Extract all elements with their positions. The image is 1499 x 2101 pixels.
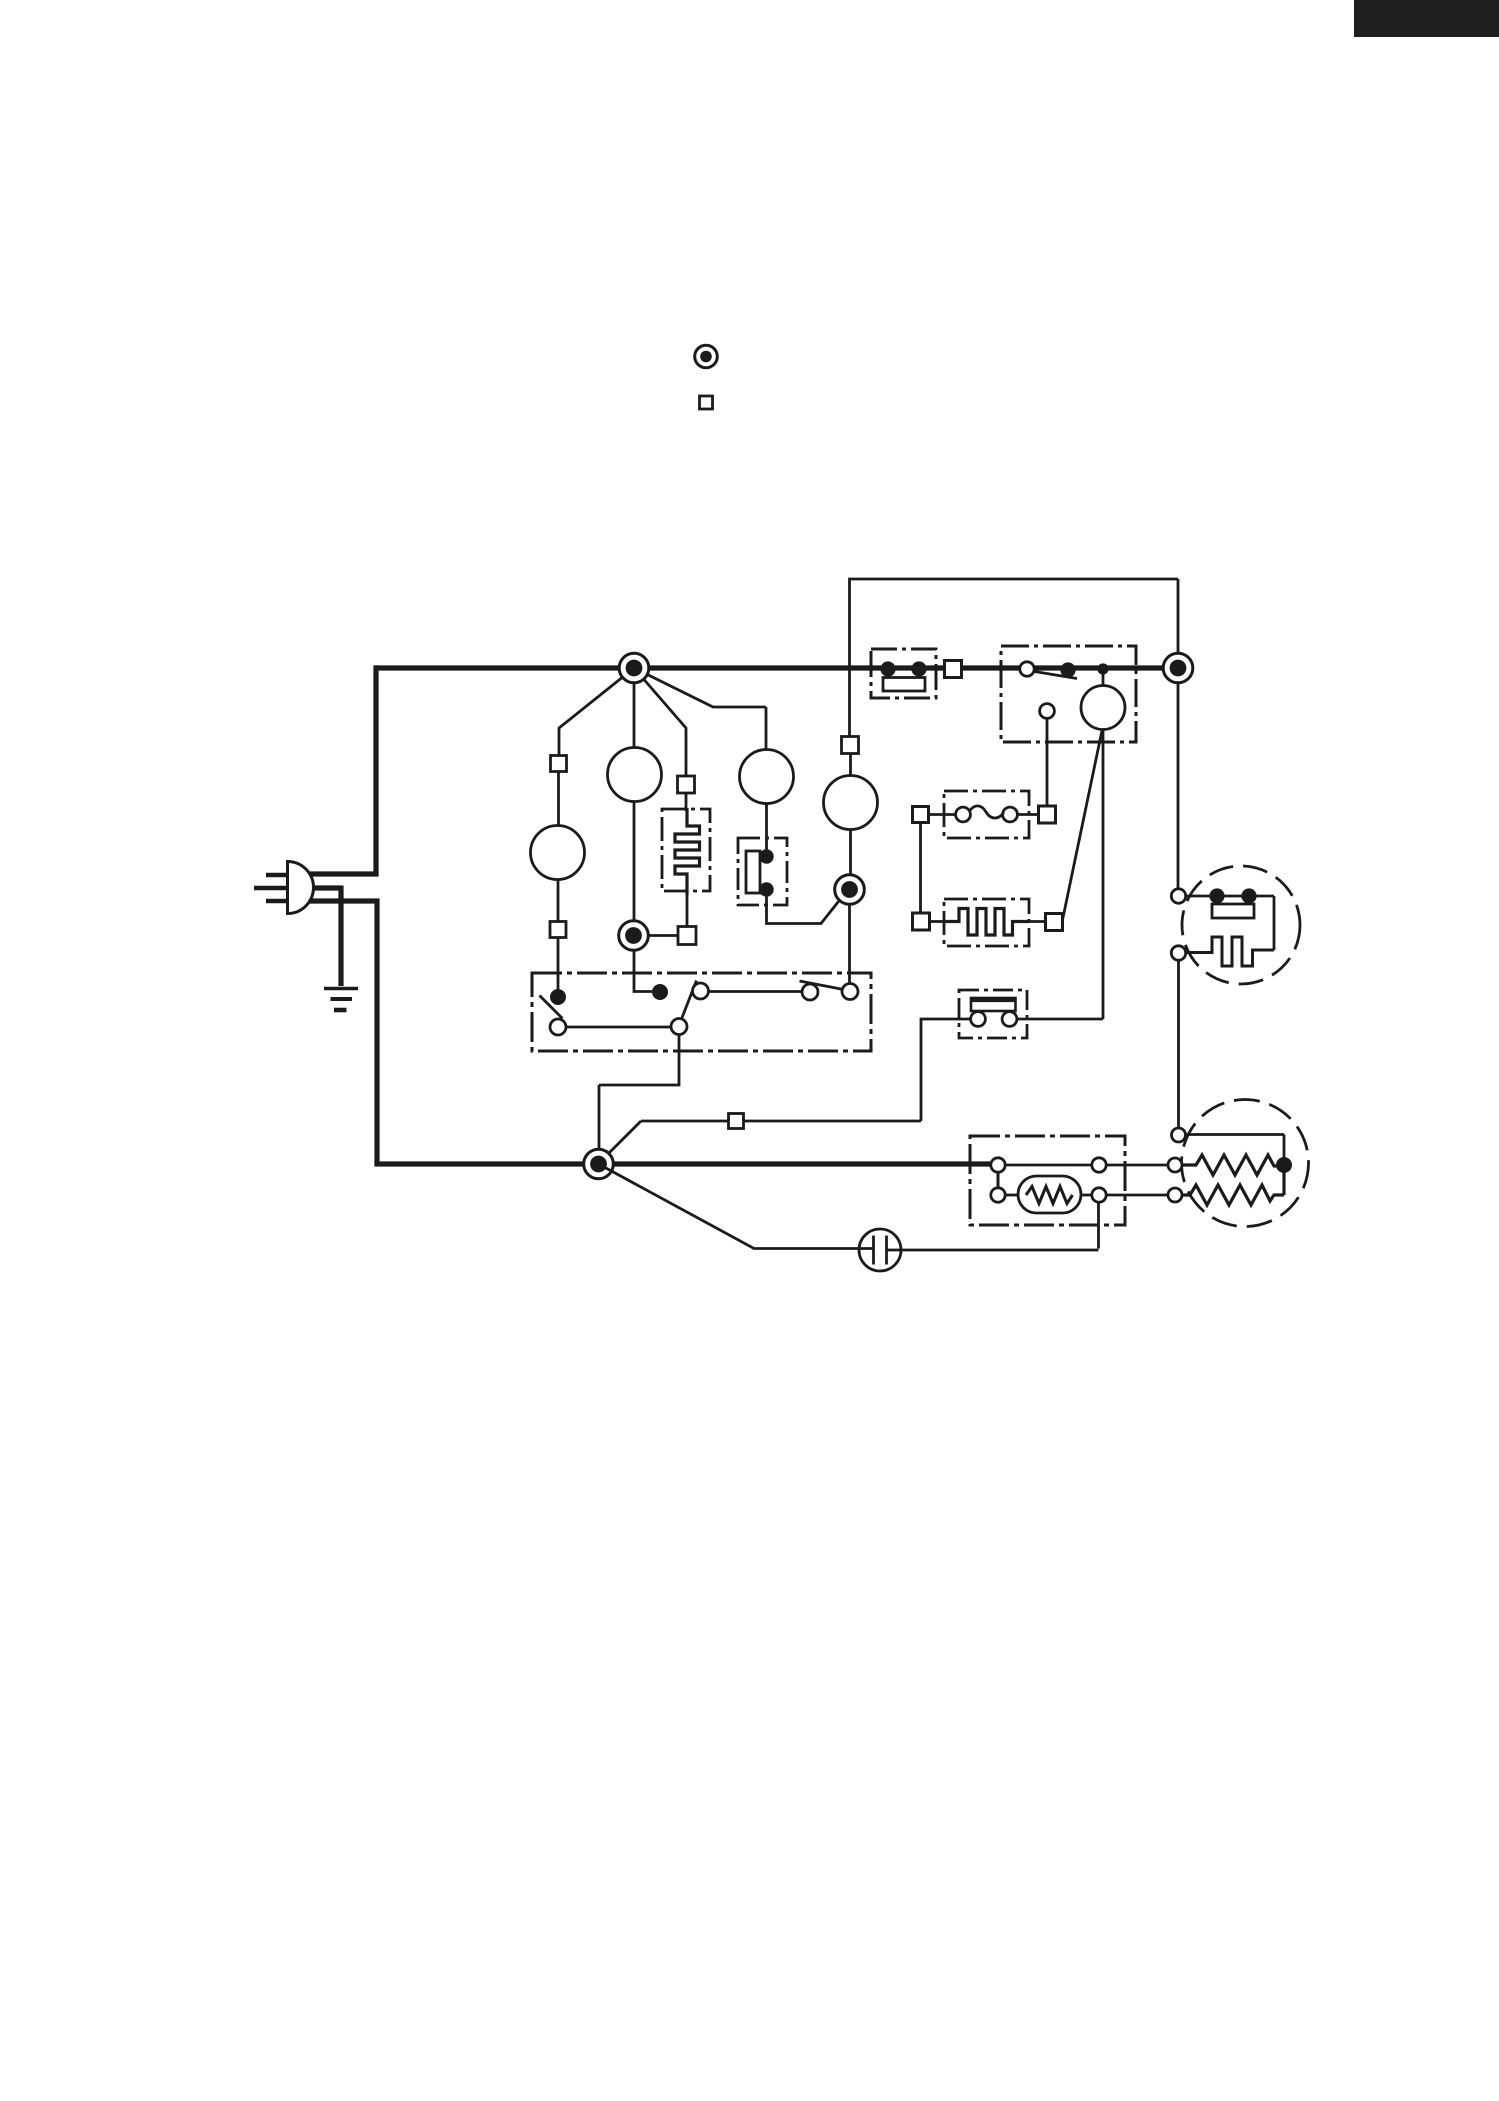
wire S10 to MB2 [930, 920, 945, 923]
magnetron terminal top [1171, 889, 1185, 903]
wire S8 to S10 [919, 823, 922, 914]
wire plug neutral lead (thick) [309, 898, 377, 1164]
relay terminal RB-d [1040, 704, 1055, 719]
magnetron anode vanes [1186, 937, 1274, 966]
heater box MB2 [944, 899, 1029, 946]
switch SW3 contact left [802, 984, 818, 1000]
wire S4 to MB1 [685, 793, 688, 811]
terminal square S3 [678, 927, 696, 945]
wire MB2 to S11 [1029, 920, 1046, 923]
wire C3 to F1 [765, 804, 768, 851]
magnetron terminal bottom [1171, 946, 1185, 960]
motor C2 [608, 748, 662, 802]
wire S5 to C4 [849, 754, 852, 776]
pin dot F1 bottom [759, 882, 773, 896]
fan wire T1 top run [1186, 1135, 1285, 1159]
wire N1 to C2 [633, 668, 636, 748]
wire magnetron to fan motor [1177, 960, 1180, 1128]
lamp C3 [740, 750, 794, 804]
terminal square S5 [842, 737, 859, 754]
fan junction dot [1276, 1157, 1292, 1173]
HR heater oval [1018, 1176, 1081, 1213]
power plug P [288, 862, 314, 914]
relay pin dot RB-b [1060, 662, 1075, 677]
relay pin dot RB-c [1097, 663, 1108, 674]
fan terminal T3 [1168, 1188, 1182, 1202]
switch SW1 blade [540, 996, 563, 1019]
fuse element F1 [746, 851, 760, 893]
magnetron filament dots [1209, 888, 1224, 903]
wire N5 to capacitor [599, 1164, 874, 1249]
wire S1 to C1 [557, 772, 560, 826]
HR heater zigzag [1026, 1187, 1073, 1204]
HR contact A [991, 1158, 1005, 1172]
terminal square S1 [551, 756, 567, 772]
wire S8 to TP [929, 813, 956, 816]
wire TS to coil BC vertical [1102, 729, 1105, 1019]
wire capacitor to HR [887, 1202, 1099, 1250]
thermistor element MB1 glyph [675, 808, 700, 895]
terminal square S11 [1046, 914, 1063, 931]
fan motor FM dashed envelope [1182, 1100, 1309, 1227]
wire C2 to N2 [633, 802, 636, 923]
capacitor plates [874, 1236, 887, 1265]
wire plug earth lead (thick) [309, 886, 341, 987]
wire bus to S5 branch [848, 668, 851, 737]
HR link A-B [997, 1172, 1000, 1188]
cutout contact TP left [956, 807, 971, 822]
wire N2 to SW2 NC jog [634, 949, 652, 992]
capacitor C [859, 1229, 901, 1271]
fan terminal T2 [1168, 1158, 1182, 1172]
wire MB1 to S3 [686, 895, 689, 927]
wire N1 to S1 branch [559, 668, 634, 756]
black corner tab [1354, 0, 1499, 37]
wire N3 to SW3 [848, 905, 851, 985]
thermostat bridge bar [971, 998, 1016, 1011]
node N3 [835, 875, 865, 905]
wire F1 to N3 [767, 890, 847, 924]
terminal square S8 [913, 807, 929, 823]
wire N5 diag to interlock run [598, 1121, 641, 1164]
wire SW1 to SW2 [566, 1026, 671, 1029]
node N5 [584, 1149, 614, 1179]
switch SW2 NO contact [693, 983, 709, 999]
switch SW2 common [671, 1019, 687, 1035]
wire S11 to coil BC [1063, 731, 1103, 921]
switch SW2 blade [682, 981, 697, 1020]
terminal square S9 [1039, 806, 1056, 823]
wire left riser (thick) [373, 665, 378, 874]
switch SW3 contact right [842, 984, 858, 1000]
heater switch box HR [970, 1136, 1125, 1225]
wire TP to S9 [1017, 813, 1038, 816]
terminal square S10 [913, 913, 930, 930]
wire RB-d to S9 [1046, 719, 1049, 807]
fuse holder box FB [871, 649, 936, 698]
fan winding R1 [1182, 1155, 1278, 1175]
wire C4 to N3 [849, 830, 852, 877]
thermal cutout box TP [944, 791, 1029, 838]
switch assembly box SW [532, 973, 871, 1051]
pin dot F1 top [759, 849, 773, 863]
fan terminal T1 [1172, 1128, 1186, 1142]
wire N1 to C3 branch [634, 668, 766, 750]
wire RB-c to coil [1102, 669, 1105, 686]
terminal square S7 [729, 1114, 744, 1129]
thermostat contact TS left [971, 1012, 986, 1027]
ground [324, 987, 358, 990]
fuse box F1 [738, 838, 787, 905]
legend terminal square [700, 396, 713, 409]
terminal square S2 [550, 922, 566, 938]
heater element MB2 glyph [944, 909, 1029, 936]
wire C1 to S2 [557, 880, 560, 922]
HR wire oval-D [1081, 1194, 1092, 1197]
cutout contact TP right [1003, 807, 1018, 822]
magnetron filament body [1212, 904, 1254, 918]
pin dot FB right [911, 661, 926, 676]
switch SW2 NC dot [652, 984, 668, 1000]
wire TS right to riser [1017, 1018, 1103, 1021]
wire top bus (thick) [376, 665, 1178, 670]
node N4 [1163, 653, 1193, 683]
legend connector symbol [695, 345, 718, 368]
HR contact C [1092, 1158, 1106, 1172]
node N2 [619, 921, 649, 951]
wire SW2 common down jog [599, 1035, 679, 1151]
oven thermostat box TS [959, 990, 1027, 1038]
magnetron MG dashed envelope [1182, 866, 1300, 984]
HR wire B-oval [1005, 1194, 1018, 1197]
relay coil BC [1081, 686, 1125, 730]
wire SW2 to SW3 [709, 990, 803, 993]
node N1 [619, 653, 649, 683]
fan winding R2 [1182, 1172, 1284, 1205]
terminal square S6 [945, 661, 962, 678]
switch SW1 contact [550, 1019, 566, 1035]
wire interlock run [641, 1120, 921, 1123]
switch SW3 blade [800, 981, 844, 990]
motor C4 [824, 776, 878, 830]
relay contact RB-a [1020, 662, 1034, 676]
wire N2 to S3 [648, 934, 679, 937]
thermistor box MB1 [662, 809, 710, 891]
magnetron filament lead [1186, 896, 1274, 950]
top outer box [850, 579, 1179, 668]
terminal square S4 [678, 776, 695, 793]
HR wire A-C [1005, 1164, 1092, 1167]
wire bottom bus (thick) [374, 1161, 991, 1166]
HR wire D to T3 [1106, 1194, 1168, 1197]
pin dot FB left [880, 661, 895, 676]
wire N4 to magnetron [1177, 683, 1180, 889]
switch SW1 pin dot [550, 989, 566, 1005]
relay blade [1035, 672, 1078, 679]
wire TS left jog [921, 1019, 971, 1121]
thermostat contact TS right [1002, 1012, 1017, 1027]
relay box RB [1001, 646, 1136, 742]
wire N1 to S4 branch [634, 668, 686, 776]
lamp C1 [531, 826, 585, 880]
HR contact B [991, 1188, 1005, 1202]
wire plug line lead (thick) [308, 871, 379, 876]
fuse element FB [883, 678, 925, 692]
cutout bimetal curve [970, 806, 1004, 818]
HR wire C to T2 [1106, 1164, 1168, 1167]
HR contact D [1092, 1188, 1106, 1202]
wire S2 to SW1 [557, 938, 560, 991]
